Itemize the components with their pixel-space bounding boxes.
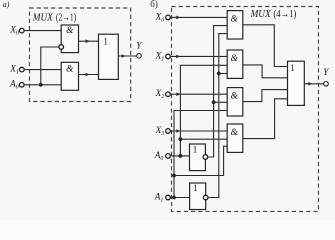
wire A1 to NOT2 [170, 197, 189, 199]
svg-text:&: & [231, 54, 239, 64]
arrow on X1 wire [176, 55, 180, 59]
arrow on X0 wire [176, 16, 180, 20]
svg-text:Y: Y [323, 67, 329, 77]
OR gate D3 [99, 34, 119, 79]
A1 vertical bus [174, 111, 227, 198]
wire N2 output to bus Abar1 [208, 34, 227, 198]
junction A1 [172, 196, 176, 200]
arrow on X2 wire [176, 92, 180, 96]
svg-text:(4→1): (4→1) [273, 9, 296, 20]
junction A0 [179, 154, 183, 158]
output bubble N2 [203, 195, 208, 200]
wire E1 output to OR [243, 25, 288, 67]
wire D2 output to OR [79, 74, 99, 76]
svg-text:a): a) [3, 0, 10, 9]
terminal X0 (b) [166, 15, 171, 20]
junction A0 to E4 [179, 137, 183, 141]
svg-text:Y: Y [136, 41, 142, 51]
wire X0 to gate D1 [24, 30, 61, 32]
svg-text:MUX: MUX [250, 8, 271, 20]
wire D1 output to OR [79, 40, 99, 42]
terminal X2 (b) [166, 92, 171, 97]
arrow on D1 output [86, 39, 90, 43]
output wire Y (a) [118, 55, 136, 57]
terminal X1 [20, 67, 25, 72]
terminal A1 (b) [166, 195, 171, 200]
wire N1 output to bus Abar0 [208, 26, 228, 157]
AND gate E4 [227, 124, 243, 152]
svg-text:&: & [66, 64, 74, 74]
svg-text:&: & [66, 26, 74, 36]
svg-text:&: & [231, 15, 239, 25]
svg-text:1: 1 [103, 36, 108, 46]
svg-text:1: 1 [290, 63, 295, 73]
terminal X3 (b) [166, 129, 171, 134]
AND gate D1 [61, 25, 78, 53]
NOT gate N2 [190, 183, 206, 210]
AND gate E1 [227, 11, 243, 39]
junction Abar1 to E2 [217, 72, 221, 76]
svg-text:MUX: MUX [32, 12, 53, 24]
svg-text:1: 1 [193, 145, 198, 155]
svg-text:1: 1 [193, 183, 198, 193]
wire X2 to gate E3 [170, 93, 227, 95]
OR gate E5 [288, 61, 305, 105]
wire A0 to gate D2 [24, 84, 61, 86]
wire A0 to NOT1 [170, 155, 189, 157]
dashed enclosure box b [172, 7, 319, 212]
wire X3 to gate E4 [170, 130, 227, 132]
A0 branch to gate E4 [180, 138, 227, 140]
terminal X1 (b) [166, 54, 171, 59]
terminal A0 (b) [166, 154, 171, 159]
arrow on D2 output [86, 73, 90, 77]
junction Abar0 to E3 [212, 100, 216, 104]
svg-text:б): б) [150, 0, 158, 9]
wire E4 output to OR [243, 99, 288, 139]
NOT gate N1 [190, 144, 206, 171]
svg-text:&: & [231, 128, 239, 138]
terminal X0 [20, 28, 25, 33]
wire X1 to gate D2 [24, 69, 61, 71]
arrow on output a [122, 54, 126, 58]
A1 branch to gate E4 [174, 146, 227, 175]
Abar1 branch to gate E2 [219, 73, 227, 75]
svg-text:&: & [231, 92, 239, 102]
AND gate D2 [61, 62, 78, 90]
A0 vertical bus [180, 65, 227, 156]
AND gate E3 [227, 88, 243, 116]
junction A1 branch [172, 174, 176, 178]
wire E2 output to OR [243, 65, 288, 78]
dashed enclosure box a [30, 8, 131, 102]
AND gate E2 [227, 50, 243, 78]
terminal A0 [20, 83, 25, 88]
svg-text:(2→1): (2→1) [56, 13, 77, 24]
arrow on output b [308, 82, 312, 86]
wire X0 to gate E1 [170, 16, 227, 18]
junction on A0 wire [39, 83, 43, 87]
terminal Y (a) [137, 54, 142, 59]
output bubble N1 [203, 155, 208, 160]
output wire Y (b) [304, 83, 323, 85]
wire X1 to gate E2 [170, 55, 227, 57]
arrow on X3 wire [176, 129, 180, 133]
Abar0 branch to gate E3 [214, 101, 228, 103]
wire E3 output to OR [243, 90, 288, 102]
inverted input bubble of D1 [59, 45, 64, 50]
wire A0 branch up to inverted input of D1 [41, 47, 59, 85]
terminal Y (b) [324, 82, 329, 87]
